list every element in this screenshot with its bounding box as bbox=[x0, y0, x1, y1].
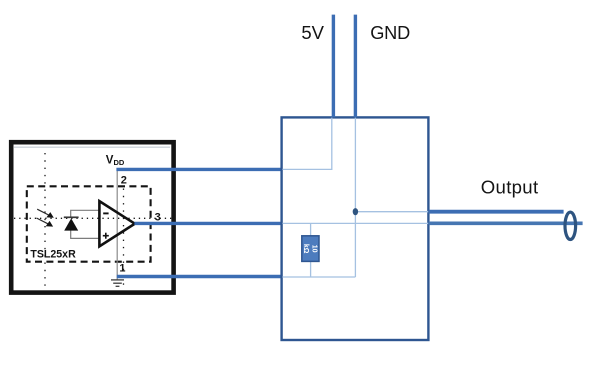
5V lead bbox=[332, 15, 335, 118]
light arrow 1 bbox=[37, 209, 54, 218]
internal rail pin 2 to pin 1 bbox=[116, 171, 118, 280]
wire photodiode anode to op-amp non-inverting input bbox=[71, 231, 99, 239]
ground bbox=[111, 280, 124, 286]
light arrow 2 bbox=[37, 218, 54, 227]
svg-text:Output: Output bbox=[481, 177, 539, 198]
svg-text:5V: 5V bbox=[301, 22, 324, 43]
chip die boundary (dashed) bbox=[27, 186, 151, 261]
wire photodiode cathode to op-amp inverting input bbox=[71, 210, 99, 217]
wire output pin3 to connector bbox=[134, 222, 281, 225]
sensor module outline U1 package bbox=[11, 142, 173, 292]
output connector plug bbox=[565, 212, 576, 239]
wire ground pin1 to connector bbox=[117, 275, 282, 278]
connector internal 5V trace bbox=[282, 118, 331, 170]
svg-text:TSL25xR: TSL25xR bbox=[30, 249, 76, 261]
output cable signal wire bbox=[429, 222, 583, 226]
connector internal shield trace bbox=[355, 211, 428, 213]
svg-text:10: 10 bbox=[310, 245, 317, 253]
output cable shield wire bbox=[429, 210, 564, 214]
photodiode D1 bbox=[64, 217, 79, 230]
node junction shield/GND bbox=[353, 208, 358, 215]
resistor R1 leads bbox=[310, 223, 312, 277]
sensor top inner shadow bbox=[14, 146, 170, 148]
svg-text:2: 2 bbox=[121, 174, 127, 186]
svg-text:GND: GND bbox=[370, 23, 410, 43]
resistor R1 10 kOhm bbox=[302, 236, 319, 262]
svg-text:kΩ: kΩ bbox=[302, 244, 309, 254]
svg-text:VDD: VDD bbox=[106, 155, 125, 168]
dotted axis horizontal bbox=[14, 217, 172, 219]
connector internal GND trace bbox=[354, 118, 356, 277]
connector internal ground return trace bbox=[282, 276, 355, 278]
op-amp A1 bbox=[99, 201, 134, 246]
connector block J1 bbox=[282, 117, 429, 340]
svg-text:3: 3 bbox=[155, 211, 161, 223]
GND lead bbox=[354, 15, 357, 118]
connector internal signal trace bbox=[282, 222, 428, 224]
svg-text:1: 1 bbox=[119, 262, 125, 274]
dotted axis vertical right bbox=[123, 189, 125, 291]
wire VDD pin2 to connector bbox=[116, 168, 281, 171]
dotted axis vertical left bbox=[44, 153, 46, 290]
